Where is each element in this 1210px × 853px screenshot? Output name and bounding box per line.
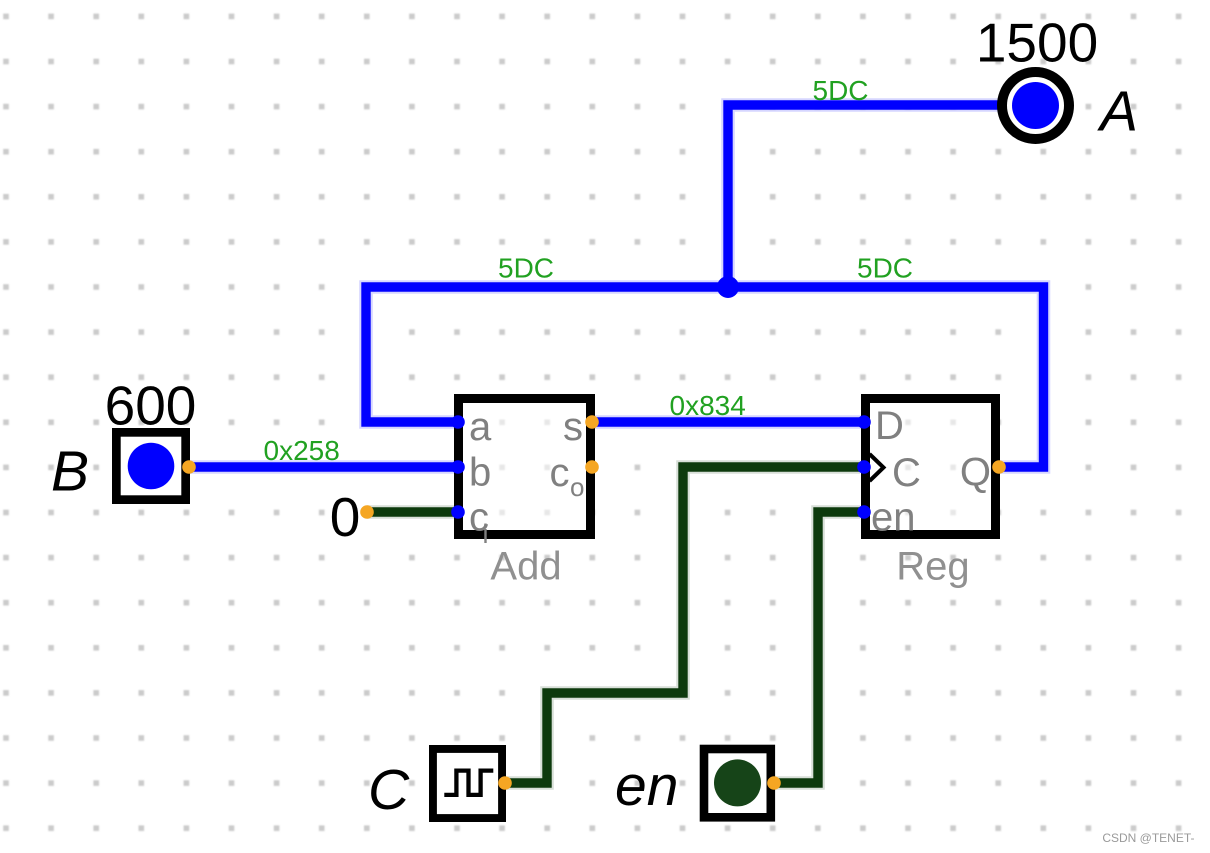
svg-text:i: i (483, 519, 489, 549)
svg-text:en: en (615, 754, 678, 818)
svg-text:en: en (871, 496, 916, 540)
svg-text:CSDN @TENET-: CSDN @TENET- (1102, 831, 1194, 845)
svg-text:Q: Q (960, 451, 991, 495)
svg-text:Add: Add (490, 545, 561, 589)
svg-text:D: D (875, 404, 904, 448)
svg-text:A: A (1097, 80, 1138, 144)
svg-text:0x834: 0x834 (670, 390, 746, 421)
svg-text:o: o (570, 472, 584, 502)
svg-text:s: s (563, 405, 583, 449)
svg-text:b: b (469, 451, 491, 495)
svg-text:5DC: 5DC (857, 253, 913, 284)
svg-text:5DC: 5DC (813, 75, 869, 106)
svg-text:C: C (368, 758, 410, 822)
svg-text:0: 0 (330, 486, 361, 548)
svg-text:c: c (550, 451, 570, 495)
svg-text:a: a (469, 405, 492, 449)
svg-text:B: B (51, 440, 89, 504)
svg-text:Reg: Reg (896, 545, 969, 589)
svg-text:C: C (892, 451, 921, 495)
svg-text:0x258: 0x258 (264, 435, 340, 466)
svg-text:5DC: 5DC (498, 253, 554, 284)
svg-text:600: 600 (105, 375, 197, 437)
svg-text:1500: 1500 (976, 12, 1098, 74)
